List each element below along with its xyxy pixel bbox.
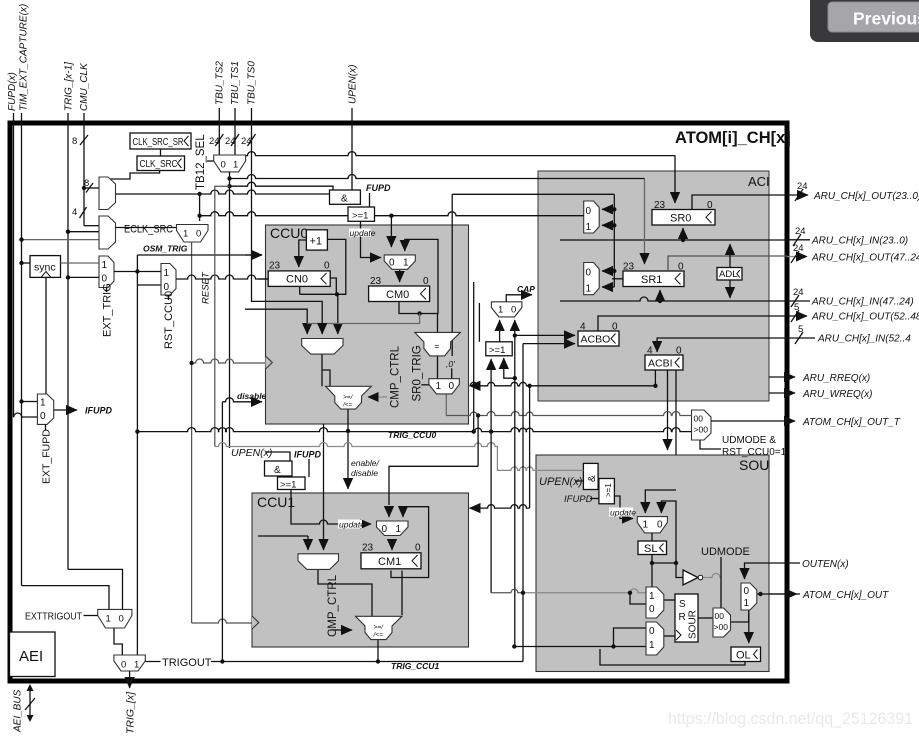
- svg-text:ACBO: ACBO: [581, 334, 611, 346]
- wire branch 613 up: [614, 628, 647, 647]
- midfield wires: [137, 152, 691, 671]
- svg-text:ARU_CH[x]_OUT(52..48): ARU_CH[x]_OUT(52..48): [811, 312, 919, 323]
- wire CM1 loop: [391, 507, 429, 578]
- ADL up arrow: [729, 244, 731, 267]
- svg-text:&: &: [274, 465, 281, 476]
- register SOUR: [675, 594, 698, 642]
- svg-text:23: 23: [623, 262, 635, 273]
- svg-text:00: 00: [715, 611, 725, 621]
- svg-text:TRIG_[x-1]: TRIG_[x-1]: [64, 62, 75, 111]
- svg-text:1: 1: [436, 381, 442, 392]
- mux 00 >00 outside: [692, 410, 712, 440]
- svg-text:0: 0: [389, 258, 395, 269]
- svg-text:23: 23: [362, 543, 374, 554]
- svg-text:FUPD: FUPD: [366, 183, 391, 193]
- svg-text:SR0: SR0: [670, 213, 691, 225]
- wire ACBO feed lines: [515, 334, 575, 336]
- svg-text:RESET: RESET: [201, 271, 212, 304]
- mux 0 1: [384, 255, 415, 269]
- svg-text:0: 0: [221, 160, 226, 171]
- register CM1: [361, 553, 421, 569]
- wire TRIG into clock mux: [68, 231, 99, 233]
- svg-text:ARU_CH[x]_OUT(23..0): ARU_CH[x]_OUT(23..0): [813, 191, 919, 202]
- svg-text:24: 24: [241, 136, 252, 147]
- FUPD(x) input: [13, 113, 15, 417]
- wire TBU bus to SR1: [230, 175, 645, 179]
- svg-text:CN0: CN0: [286, 274, 308, 286]
- register OL: [731, 647, 761, 662]
- clock mux lower: [99, 216, 116, 249]
- column B feeds CCU1 mux: [477, 416, 479, 467]
- svg-text:8: 8: [84, 178, 89, 189]
- svg-text:1: 1: [396, 524, 402, 535]
- svg-text:1: 1: [233, 160, 238, 171]
- wire lower mux out: [116, 227, 177, 229]
- svg-text:ARU_CH[x]_IN(23..0): ARU_CH[x]_IN(23..0): [811, 236, 908, 247]
- wire OR gate second input tap: [504, 358, 515, 378]
- svg-text:CMU_CLK: CMU_CLK: [79, 62, 90, 111]
- svg-text:>=1: >=1: [280, 480, 296, 491]
- svg-text:RST_CCU0: RST_CCU0: [163, 291, 175, 349]
- svg-text:EXTTRIGOUT: EXTTRIGOUT: [25, 611, 82, 623]
- svg-text:UPEN(x): UPEN(x): [539, 476, 583, 488]
- svg-text:1: 1: [106, 614, 111, 625]
- gray block CCU1: [252, 424, 478, 661]
- wire mux top arrows: [388, 507, 390, 517]
- wire ,0' into mux10: [451, 368, 453, 378]
- svg-text:+1: +1: [310, 236, 323, 248]
- svg-text:8: 8: [72, 136, 77, 147]
- right outputs: [692, 181, 919, 601]
- EXTTRIGOUT feeds: [68, 569, 123, 609]
- svg-text:ECLK_SRC: ECLK_SRC: [124, 224, 173, 236]
- svg-text:UDMODE &: UDMODE &: [722, 435, 776, 446]
- svg-text:ARU_CH[x]_IN(52..4: ARU_CH[x]_IN(52..4: [817, 334, 911, 345]
- svg-text:disable: disable: [237, 391, 267, 401]
- svg-text:OL: OL: [736, 650, 751, 662]
- ATOM_CH[x]_OUT: [769, 593, 797, 595]
- CMU_CLK input: [83, 113, 85, 226]
- svg-text:24: 24: [209, 136, 220, 147]
- wire SR1 out to right: [668, 256, 787, 270]
- wire mux10 out: [445, 394, 447, 416]
- svg-text:TBU_TS2: TBU_TS2: [215, 61, 226, 105]
- wire SL loop into mux 0: [661, 501, 676, 563]
- wire sync out: [61, 262, 100, 264]
- RST_CCU0 mux: [161, 264, 176, 296]
- svg-text:RST_CCU0=1: RST_CCU0=1: [722, 447, 787, 458]
- svg-text:CLK_SRC: CLK_SRC: [140, 158, 178, 170]
- svg-text:UPEN(x): UPEN(x): [231, 447, 272, 459]
- wire TBU TS bus to SR0: [246, 152, 676, 156]
- svg-text:4: 4: [72, 207, 77, 218]
- wire out mux to ATOM_CH_OUT: [757, 593, 800, 595]
- column 137 down to trigout: [136, 255, 138, 655]
- svg-text:https://blog.csdn.net/qq_25126: https://blog.csdn.net/qq_25126391: [668, 710, 913, 728]
- svg-text:SOU: SOU: [739, 457, 769, 473]
- wire UPEN into and: [575, 480, 583, 482]
- svg-text:=: =: [435, 342, 440, 351]
- svg-text:TB12_SEL: TB12_SEL: [195, 134, 207, 190]
- wire CMU 8-bit branch: [84, 187, 99, 189]
- wire ARU_IN(23..0) bus: [560, 239, 787, 241]
- svg-text:disable: disable: [351, 468, 378, 478]
- wire TRIG_[x] out: [129, 671, 131, 688]
- wire big mux in1: [245, 309, 307, 334]
- EXT_TRIG mux: [99, 256, 114, 288]
- TRIG_CCU0 line: [137, 428, 691, 432]
- svg-text:5: 5: [798, 324, 803, 335]
- wire CM0 out into mux01: [399, 270, 401, 282]
- svg-text:1: 1: [586, 222, 592, 233]
- register CN0: [268, 271, 330, 287]
- svg-text:ATOM[i]_CH[x]: ATOM[i]_CH[x]: [675, 129, 791, 147]
- wire = out to mux10: [437, 356, 439, 379]
- register CLK_SRC_SR: [130, 133, 191, 149]
- svg-text:4: 4: [647, 346, 653, 357]
- wire update into 01 mux: [291, 490, 371, 525]
- svg-text:00: 00: [694, 414, 704, 424]
- svg-text:IFUPD: IFUPD: [564, 494, 593, 505]
- disable arrow into CCU0: [222, 398, 262, 402]
- CMP_CTRL gray arrow: [368, 396, 387, 398]
- wire or out update arrow: [615, 496, 634, 519]
- wire enable arrow into top: [347, 431, 349, 489]
- svg-text:ACBI: ACBI: [648, 358, 673, 370]
- wire big mux out to cmp: [318, 570, 372, 616]
- comparator gte lte: [326, 386, 372, 409]
- big mux: [298, 554, 339, 570]
- EXTTRIGOUT mux: [98, 609, 132, 628]
- wire mux out into CM1: [391, 540, 393, 550]
- svg-text:23: 23: [654, 200, 666, 211]
- wire OUTEN into out mux: [745, 563, 801, 579]
- wire gray L2 to SOU and gate: [215, 443, 584, 471]
- TBU_TS0 input: [252, 108, 323, 334]
- svg-text:0: 0: [196, 229, 201, 240]
- wire into SR1 bottom: [659, 290, 661, 301]
- ADL down arrow: [729, 280, 731, 298]
- UPEN(x) input: [351, 108, 353, 190]
- wire y178 into SR1 top (gray): [644, 179, 646, 265]
- wire CM1 out down to cmp: [401, 571, 403, 616]
- ARU_CH[x]_IN(52..4: [787, 337, 815, 339]
- svg-text:1: 1: [183, 229, 188, 240]
- svg-text:TBU_TS0: TBU_TS0: [247, 61, 258, 105]
- wire CCU1 data input y508: [522, 344, 524, 662]
- TRIG_[x-1] input: [67, 113, 69, 569]
- register CLK_SRC: [137, 156, 185, 171]
- wire SR0TRIG out y415: [446, 412, 691, 416]
- svg-text:SR1: SR1: [641, 274, 662, 286]
- svg-text:CLK_SRC_SR: CLK_SRC_SR: [133, 136, 184, 148]
- wire 646 line into mux 0/1: [514, 646, 646, 648]
- svg-text:0: 0: [744, 586, 750, 597]
- register SL: [638, 541, 667, 555]
- wire SR0 output to top: [692, 195, 787, 209]
- svg-text:0: 0: [324, 261, 330, 272]
- previous button: [810, 0, 919, 42]
- wire 215 line to muxB: [200, 212, 584, 216]
- wire TB12 out column: [229, 172, 231, 448]
- wire EXTTRIGOUT out to TRIGOUT: [114, 628, 122, 655]
- svg-text:SR0_TRIG: SR0_TRIG: [412, 345, 424, 401]
- CMP_CTRL arrow: [330, 629, 352, 631]
- CAP mux and gate: [491, 302, 522, 317]
- svg-text:CM0: CM0: [386, 289, 409, 301]
- svg-text:0: 0: [511, 305, 516, 316]
- wire loop branch down: [337, 294, 339, 334]
- wire cmp out down (TRIG_CCU0): [347, 409, 349, 431]
- wire SOUR out into 00>00: [698, 617, 713, 619]
- wire +1 to CN0: [299, 240, 307, 267]
- svg-text:UPEN(x): UPEN(x): [347, 65, 358, 104]
- outer border: [10, 123, 787, 681]
- wire x452 from y194: [451, 194, 453, 356]
- wire RST out to CN0: [176, 275, 268, 279]
- svg-text:>00: >00: [714, 622, 729, 632]
- svg-text:23: 23: [370, 276, 382, 287]
- svg-text:UDMODE: UDMODE: [701, 546, 750, 558]
- svg-text:TRIGOUT: TRIGOUT: [162, 657, 212, 669]
- wire SL out down: [651, 555, 653, 588]
- ARU_RREQ / WREQ: [769, 376, 795, 378]
- svg-text:0: 0: [40, 411, 46, 422]
- register ACBI: [645, 355, 683, 370]
- wire inverter out: [704, 574, 722, 578]
- svg-text:CCU1: CCU1: [257, 494, 295, 510]
- wire CN0 feedback loop: [300, 239, 346, 294]
- input notch: [266, 356, 273, 369]
- svg-text:0: 0: [119, 614, 124, 625]
- wire EXT_TRIG out / OSM_TRIG: [114, 271, 161, 273]
- svg-text:enable/: enable/: [351, 458, 381, 468]
- svg-text:1: 1: [643, 520, 649, 531]
- svg-text:1: 1: [102, 260, 108, 271]
- svg-text:0: 0: [649, 626, 655, 637]
- wire mux out into SL: [651, 532, 653, 541]
- register ACBO: [578, 331, 619, 346]
- wire upper mux out long: [116, 190, 615, 194]
- wire IFUPD into or: [590, 498, 599, 500]
- svg-text:0: 0: [423, 276, 429, 287]
- wire OL loop left: [600, 649, 745, 665]
- svg-text:0: 0: [586, 206, 592, 217]
- svg-text:0: 0: [382, 524, 388, 535]
- svg-text:24: 24: [797, 181, 808, 192]
- ECLK mux 1 0: [177, 225, 209, 243]
- svg-text:TRIG_[x]: TRIG_[x]: [125, 691, 137, 734]
- svg-text:>=/: >=/: [343, 394, 354, 401]
- svg-text:ATOM_CH[x]_OUT: ATOM_CH[x]_OUT: [802, 590, 889, 601]
- svg-text:/<=: /<=: [373, 632, 384, 639]
- svg-text:ATOM_CH[x]_OUT_T: ATOM_CH[x]_OUT_T: [802, 417, 901, 428]
- svg-text:0: 0: [676, 346, 682, 357]
- svg-text:OSM_TRIG: OSM_TRIG: [143, 244, 188, 254]
- mux 00 >00: [713, 608, 731, 637]
- svg-text:1: 1: [164, 268, 170, 279]
- wire into inverter: [676, 563, 683, 578]
- wire ACBI line into mux 1: [645, 490, 676, 513]
- svg-text:IFUPD: IFUPD: [85, 406, 113, 416]
- wire cmp out TRIG_CCU1: [377, 640, 379, 661]
- svg-text:0: 0: [449, 381, 455, 392]
- ATOM_CH[x]_OUT_T: [761, 420, 795, 422]
- svg-text:1: 1: [403, 258, 409, 269]
- svg-text:AEI: AEI: [19, 648, 43, 665]
- ARU_IN(52..4) into ACBI: [657, 338, 787, 352]
- svg-text:SOUR: SOUR: [688, 610, 699, 639]
- svg-text:1: 1: [40, 398, 46, 409]
- 24/24/24 bus widths: [215, 134, 255, 146]
- svg-text:CAP: CAP: [517, 284, 535, 294]
- ARU_CH[x]_OUT(52..48): [787, 315, 807, 317]
- svg-text:ADL: ADL: [719, 269, 737, 280]
- svg-text:24: 24: [225, 136, 236, 147]
- wire mux left top arrow: [390, 216, 392, 247]
- wire big mux inputs: [307, 536, 309, 550]
- TBU_TS1 input: [234, 108, 236, 155]
- svg-text:0: 0: [612, 322, 618, 333]
- bus width 8 on CMU: [80, 135, 88, 145]
- ARU_CH[x]_OUT(23..0): [787, 194, 808, 196]
- svg-text:4: 4: [580, 322, 586, 333]
- wire branch 630 down: [630, 593, 646, 604]
- wire gray into mux10a: [523, 589, 646, 593]
- +1 box: [306, 230, 327, 250]
- ACBI out line left: [538, 385, 655, 387]
- wire ECLK out / RESET column: [191, 242, 193, 623]
- svg-text:23: 23: [269, 261, 281, 272]
- clock mux upper: [99, 177, 116, 210]
- disable column: [221, 402, 223, 662]
- svg-text:CCU0: CCU0: [270, 225, 308, 241]
- svg-text:&: &: [341, 194, 348, 205]
- svg-text:>00: >00: [694, 425, 709, 435]
- wire ACBI readback y385.8: [470, 382, 539, 385]
- wire into SR0 bottom: [682, 228, 684, 240]
- wire TIM into clock mux: [22, 239, 100, 241]
- muxA muxB feed column: [613, 194, 615, 287]
- TBU_TS2 input: [218, 108, 220, 155]
- wire 00>00 out into out mux: [731, 613, 749, 622]
- wire into = comparator: [437, 314, 439, 333]
- svg-text:24: 24: [793, 287, 804, 298]
- svg-text:update: update: [610, 508, 636, 518]
- or box rotated: [599, 479, 615, 504]
- svg-text:TRIG_CCU0: TRIG_CCU0: [388, 430, 436, 440]
- svg-text:update: update: [339, 520, 365, 530]
- svg-text:5: 5: [794, 302, 799, 313]
- ARU_CH[x]_IN(23..0): [787, 239, 810, 241]
- ARU_CH[x]_OUT(47..24): [787, 256, 807, 258]
- svg-text:FUPD(x): FUPD(x): [7, 72, 18, 111]
- and box rotated: [583, 463, 598, 489]
- TB12_SEL mux: [214, 155, 246, 172]
- IFUPD arrow: [54, 409, 77, 411]
- wire update into 01 mux: [361, 221, 382, 258]
- wire 186 corner column: [215, 186, 230, 446]
- EXT_FUPD mux: [37, 394, 53, 424]
- column 491: [490, 359, 492, 593]
- svg-text:OUTEN(x): OUTEN(x): [802, 559, 849, 570]
- wire CN0 left input: [258, 278, 268, 280]
- svg-text:1: 1: [498, 305, 503, 316]
- comparator: [356, 616, 403, 639]
- svg-text:0: 0: [102, 274, 108, 285]
- short column near OR gate: [478, 303, 480, 342]
- wire ARU_IN(47..24) bus: [560, 297, 787, 301]
- gray block CCU0: [245, 194, 469, 431]
- register CM0: [369, 286, 430, 302]
- svg-text:CMP_CTRL: CMP_CTRL: [390, 345, 402, 408]
- wire out mux down into OL: [748, 610, 750, 643]
- AEI box: [10, 632, 56, 677]
- wire y155 into SR0 top: [674, 156, 676, 203]
- svg-text:1: 1: [744, 598, 750, 609]
- svg-text:IFUPD: IFUPD: [294, 450, 322, 460]
- svg-text:S: S: [679, 599, 686, 610]
- svg-text:1: 1: [134, 660, 139, 671]
- svg-text:ACI: ACI: [748, 174, 770, 189]
- svg-text:>=1: >=1: [352, 211, 368, 222]
- svg-text:0: 0: [649, 604, 655, 615]
- svg-text:EXT_TRIG: EXT_TRIG: [102, 283, 114, 337]
- top inputs: [7, 4, 358, 586]
- svg-text:>=/: >=/: [374, 624, 385, 631]
- svg-text:ARU_WREQ(x): ARU_WREQ(x): [802, 389, 872, 400]
- AEI_BUS arrow: [29, 688, 31, 718]
- svg-text:CMP_CTRL: CMP_CTRL: [327, 574, 339, 637]
- wire OSM into mux1: [245, 254, 262, 256]
- register ADL: [717, 268, 742, 281]
- mux 1 0: [637, 517, 667, 533]
- svg-text:sync: sync: [34, 262, 56, 274]
- wire gray into CCU0 notch: [192, 359, 266, 363]
- left side: [10, 133, 615, 734]
- TRIG_CCU1 line: [145, 661, 523, 663]
- svg-text:Previous: Previous: [853, 9, 919, 29]
- mux 0 1: [377, 521, 409, 536]
- svg-text:0: 0: [121, 660, 126, 671]
- wire CM0 loop to mux right input: [399, 239, 438, 313]
- mux B 0/1: [584, 263, 600, 295]
- svg-text:TIM_EXT_CAPTURE(x): TIM_EXT_CAPTURE(x): [19, 4, 30, 111]
- ARU_CH[x]_IN(47..24): [787, 300, 810, 302]
- wire into CCU1 notch: [192, 619, 252, 623]
- out mux 0/1: [741, 583, 757, 610]
- svg-text:/<=: /<=: [342, 402, 353, 409]
- svg-text:>=1: >=1: [604, 483, 613, 497]
- input notch: [252, 616, 259, 629]
- column 514: [514, 321, 516, 647]
- svg-text:24: 24: [793, 243, 804, 254]
- svg-text:CM1: CM1: [378, 556, 401, 568]
- wire CM0 branch left down: [307, 314, 419, 324]
- svg-text:0: 0: [415, 543, 421, 554]
- svg-text:ARU_CH[x]_OUT(47..24): ARU_CH[x]_OUT(47..24): [811, 253, 919, 264]
- mux A 0/1: [584, 201, 600, 233]
- wire CLK_SRC_SR to CLK_SRC: [160, 149, 162, 156]
- svg-text:TBU_TS1: TBU_TS1: [230, 61, 241, 105]
- wire CMU 4-bit: [84, 225, 99, 227]
- svg-text:ARU_RREQ(x): ARU_RREQ(x): [802, 373, 870, 384]
- svg-text:update: update: [350, 228, 376, 238]
- sync box: [30, 256, 61, 278]
- svg-text:R: R: [679, 612, 686, 623]
- wire CLK_SRC stair to mux: [107, 171, 160, 182]
- wire SR1 left to muxB: [612, 278, 623, 280]
